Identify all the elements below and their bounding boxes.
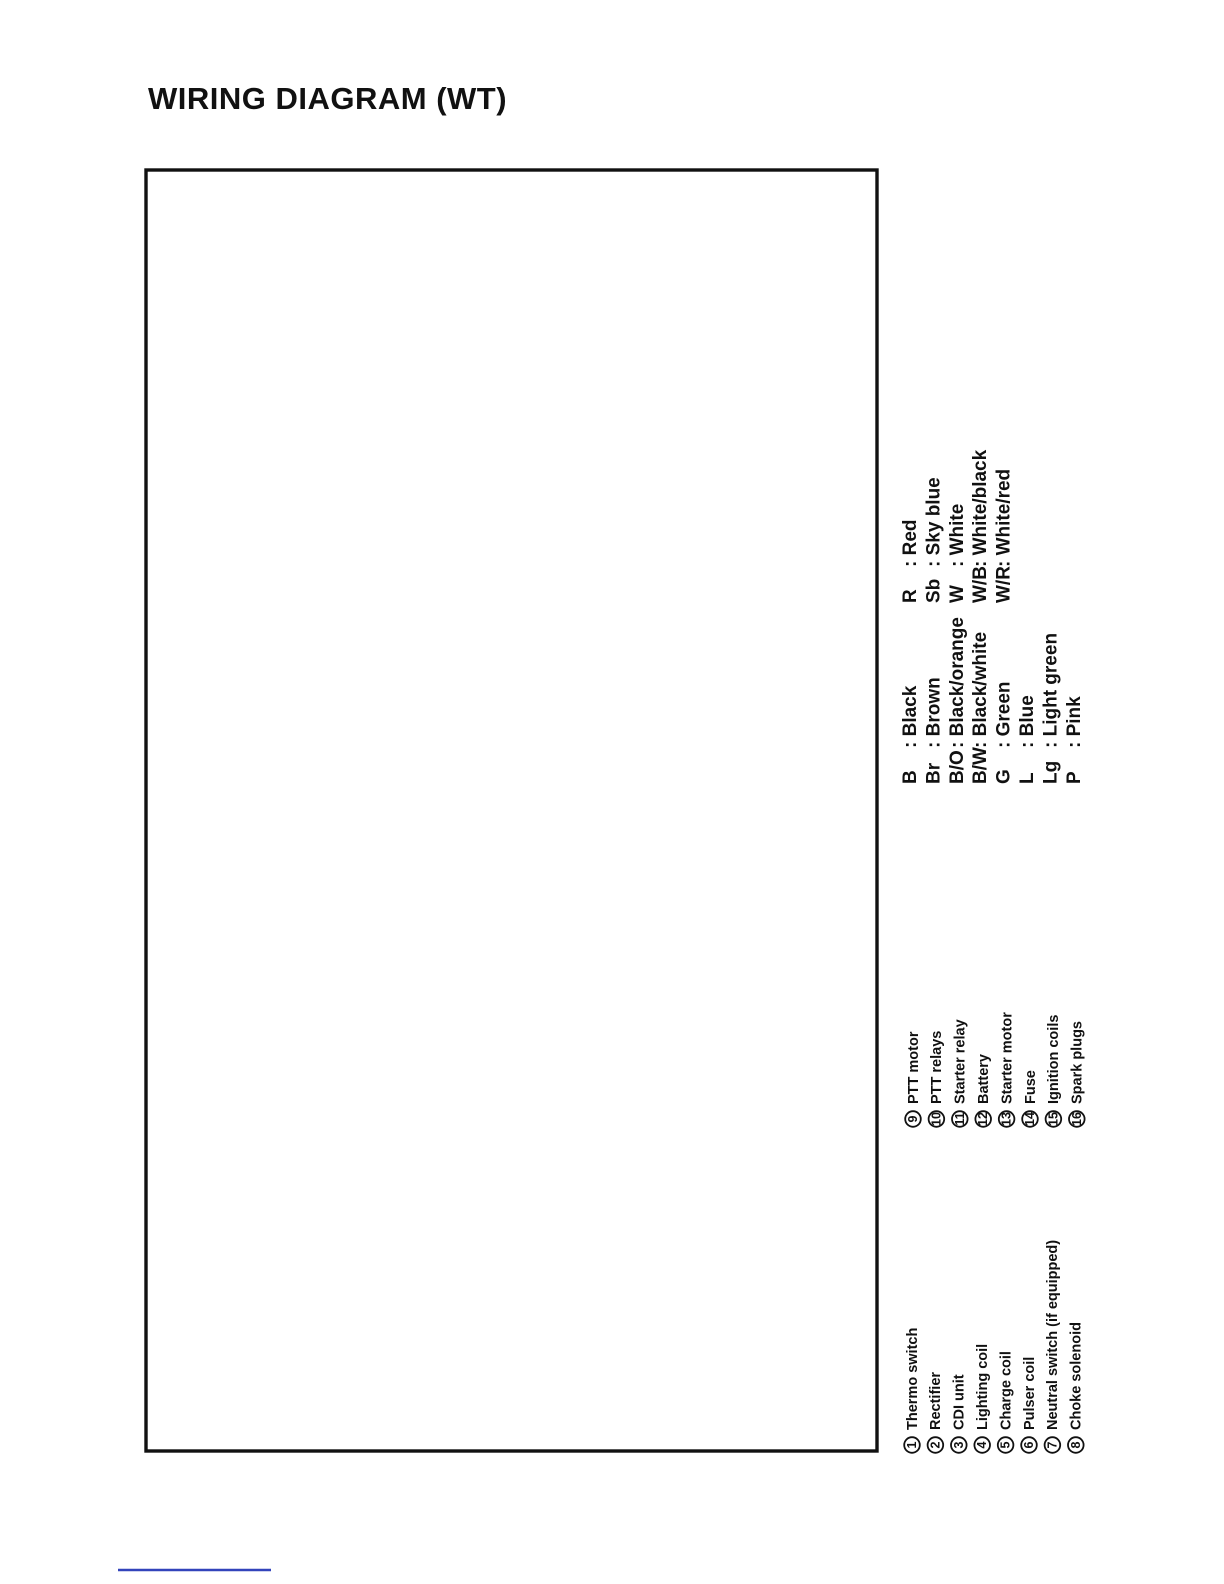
svg-text:1: 1: [905, 1441, 919, 1448]
svg-text:PTT relays: PTT relays: [929, 1031, 945, 1104]
svg-text:B/O: Black/orange: B/O: Black/orange: [947, 617, 968, 784]
svg-text:6: 6: [1022, 1441, 1036, 1448]
svg-text:CDI unit: CDI unit: [952, 1374, 968, 1430]
border frame: [146, 170, 877, 1451]
svg-text:3: 3: [952, 1441, 966, 1448]
svg-text:11: 11: [953, 1112, 967, 1125]
svg-text:W/R: White/red: W/R: White/red: [994, 469, 1015, 603]
svg-text:12: 12: [976, 1112, 990, 1126]
svg-text:Lighting coil: Lighting coil: [975, 1344, 991, 1430]
page footer blue line: [118, 1569, 271, 1571]
svg-text:15: 15: [1046, 1112, 1060, 1126]
svg-text:WIRING DIAGRAM (WT): WIRING DIAGRAM (WT): [148, 81, 507, 116]
svg-text:Choke solenoid: Choke solenoid: [1069, 1322, 1085, 1430]
svg-text:PTT motor: PTT motor: [906, 1031, 922, 1104]
svg-text:Starter relay: Starter relay: [953, 1019, 969, 1104]
svg-text:Lg: Light green: Lg: Light green: [1040, 633, 1061, 784]
svg-text:Spark plugs: Spark plugs: [1070, 1021, 1086, 1104]
svg-text:Starter motor: Starter motor: [999, 1012, 1015, 1104]
svg-text:Thermo switch: Thermo switch: [905, 1328, 921, 1430]
svg-text:Rectifier: Rectifier: [928, 1372, 944, 1430]
legend components 1-8: [904, 1437, 920, 1453]
svg-text:R: Red: R: Red: [900, 520, 921, 604]
svg-text:B/W: Black/white: B/W: Black/white: [970, 632, 991, 784]
svg-text:Neutral switch (if equipped): Neutral switch (if equipped): [1045, 1240, 1061, 1430]
svg-text:14: 14: [1023, 1112, 1037, 1126]
svg-text:W/B: White/black: W/B: White/black: [970, 449, 991, 603]
svg-text:W: White: W: White: [947, 504, 968, 603]
svg-text:13: 13: [1000, 1112, 1014, 1126]
svg-text:8: 8: [1069, 1441, 1083, 1448]
svg-text:Pulser coil: Pulser coil: [1022, 1357, 1038, 1430]
legend components 9-16: [905, 1111, 921, 1127]
svg-text:Sb: Sky blue: Sb: Sky blue: [923, 477, 944, 603]
svg-text:7: 7: [1045, 1441, 1059, 1448]
svg-text:2: 2: [928, 1441, 942, 1448]
svg-text:Battery: Battery: [976, 1054, 992, 1104]
svg-text:Br: Brown: Br: Brown: [923, 677, 944, 784]
svg-text:5: 5: [999, 1441, 1013, 1448]
svg-text:Charge coil: Charge coil: [998, 1351, 1014, 1430]
svg-text:Fuse: Fuse: [1023, 1070, 1039, 1104]
svg-text:10: 10: [929, 1112, 943, 1126]
svg-text:16: 16: [1070, 1112, 1084, 1126]
svg-text:4: 4: [975, 1441, 989, 1448]
svg-text:Ignition coils: Ignition coils: [1046, 1015, 1062, 1104]
svg-text:9: 9: [906, 1115, 920, 1122]
